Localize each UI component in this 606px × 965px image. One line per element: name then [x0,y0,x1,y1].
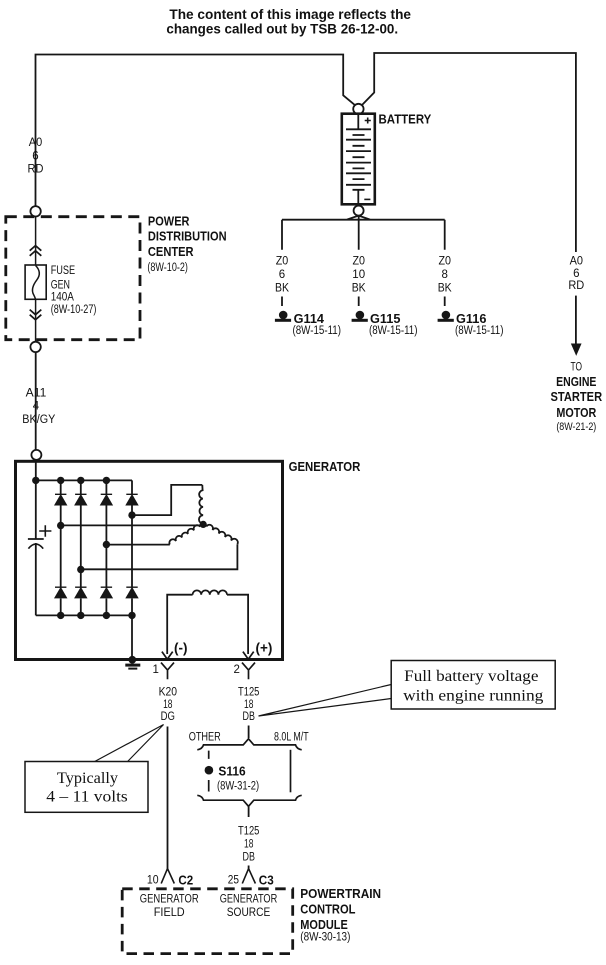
svg-text:(8W-15-11): (8W-15-11) [369,325,418,337]
node PDC input circle [30,206,40,216]
svg-text:A0: A0 [29,137,42,149]
wire top left bus from A0 to battery positive [36,55,356,207]
svg-text:RD: RD [28,164,44,176]
wire PDC internal top [35,217,37,266]
wire T125 to PCM [248,866,250,869]
node stator Y center [200,521,207,528]
svg-text:6: 6 [573,268,579,280]
label TO ENGINE STARTER MOTOR [551,362,603,434]
connector pin1 Y [161,663,174,680]
connector PCM pin25 [242,869,255,884]
svg-text:MODULE: MODULE [300,917,348,932]
connector PCM pin10 [161,869,174,884]
arrowhead field negative to pin1 [162,652,173,660]
diode D4 top col4 [126,494,137,505]
diode D8 bottom col4 [126,587,137,598]
label wire A11 4 BK/GY [22,388,55,427]
svg-text:GENERATOR: GENERATOR [220,894,278,906]
wire stator phase A step [132,485,202,515]
label FUSE GEN 140A (8W-10-27) [51,265,97,316]
svg-text:BATTERY: BATTERY [379,113,432,127]
title note TSB [166,7,411,37]
field winding loop [167,595,192,654]
svg-text:TO: TO [571,362,583,374]
ground generator case [125,656,140,670]
wire generator left vertical (B+ rail) [35,461,37,539]
label wire Z0 8 BK [438,256,452,295]
label wire Z0 6 BK [275,256,289,295]
svg-text:DG: DG [161,711,175,723]
svg-text:BK: BK [438,283,452,295]
svg-text:GENERATOR: GENERATOR [289,459,361,474]
capacitor C1 [28,525,52,548]
wire stator phase B to col3 [106,544,169,546]
chevrons up [30,246,42,256]
svg-text:Z0: Z0 [276,256,289,268]
ground G114 [275,311,291,322]
node phase tap col1 [57,522,64,529]
wire branch 8.0L M/T [290,750,292,793]
svg-text:CONTROL: CONTROL [300,902,355,917]
wire stub to G115 [358,297,360,307]
wire PDC internal bottom [35,299,37,341]
wire stator phase C to col2 [81,544,238,569]
svg-text:POWERTRAIN: POWERTRAIN [300,886,381,901]
node PDC output circle [30,342,40,352]
label wire T125 18 DB lower [238,826,259,864]
wire T125 stub below DB [248,726,250,739]
label POWERTRAIN CONTROL MODULE [300,886,381,944]
ground G115 [352,311,368,322]
svg-text:DB: DB [243,711,256,723]
rotor field coil [193,590,227,594]
svg-text:Full battery voltage: Full battery voltage [404,668,538,685]
label GENERATOR FIELD [140,894,199,920]
wire K20 down to PCM [167,727,169,869]
svg-text:8: 8 [441,269,447,281]
diode D1 top col1 [55,494,66,505]
label GENERATOR SOURCE [220,894,278,920]
callout pointer to DG wire [95,725,164,762]
svg-text:BK: BK [275,283,289,295]
svg-text:(-): (-) [174,641,188,656]
stator winding C coil [206,525,238,544]
wire battery negative to ground bus [282,216,445,250]
svg-text:Typically: Typically [57,770,118,787]
svg-text:25: 25 [228,875,239,887]
svg-text:6: 6 [279,269,285,281]
node phase tap col4 [128,511,135,518]
svg-text:Z0: Z0 [438,256,451,268]
svg-text:(8W-10-27): (8W-10-27) [51,304,97,316]
callout typically 4-11 volts box [25,762,148,813]
svg-text:CENTER: CENTER [148,244,194,259]
svg-text:18: 18 [163,699,172,711]
svg-text:1: 1 [153,664,159,676]
svg-text:BK/GY: BK/GY [22,414,55,426]
label wire K20 18 DG [159,687,177,724]
svg-text:(8W-31-2): (8W-31-2) [217,781,259,793]
label wire Z0 10 BK [352,256,366,295]
node battery negative terminal circle [354,206,364,216]
svg-text:4: 4 [33,401,40,413]
wire stub to G116 [444,297,446,307]
svg-text:6: 6 [32,151,38,163]
callout pointer to DB wire [259,685,392,717]
chevrons down [30,310,42,320]
svg-text:FIELD: FIELD [154,907,185,919]
ground G116 [438,311,454,322]
svg-text:MOTOR: MOTOR [556,405,596,420]
generator box [16,461,283,659]
svg-text:GENERATOR: GENERATOR [140,894,199,906]
svg-text:RD: RD [568,280,584,292]
diode D5 bottom col1 [55,587,66,598]
wire rectifier top rail [36,479,132,481]
label wire A0 6 RD right [568,256,584,293]
svg-text:GEN: GEN [51,280,70,292]
wire col4 to case ground [131,615,133,659]
label Full battery voltage with engine running [403,668,543,705]
wire stub to G114 [281,297,283,307]
connector pin2 Y [242,663,255,680]
svg-text:Z0: Z0 [352,256,365,268]
wire branch OTHER (dashed) [208,751,210,792]
wire rectifier bottom rail [36,614,132,616]
diode column 3 wire [105,480,107,615]
diode column 1 wire [60,480,62,615]
svg-text:140A: 140A [51,292,74,304]
power distribution center box (dashed) [6,217,140,340]
node battery positive terminal circle [353,104,363,114]
svg-text:ENGINE: ENGINE [556,374,597,389]
svg-text:18: 18 [244,839,253,851]
svg-text:10: 10 [147,875,159,887]
svg-text:(8W-30-13): (8W-30-13) [300,932,350,944]
diode D6 bottom col2 [75,587,86,598]
svg-text:A0: A0 [570,256,583,268]
svg-text:OTHER: OTHER [189,732,221,744]
svg-text:18: 18 [244,699,253,711]
svg-text:BK: BK [352,283,366,295]
diode D2 top col2 [75,494,86,505]
brace split top [197,739,301,750]
svg-text:STARTER: STARTER [551,389,603,404]
svg-text:C2: C2 [178,873,193,888]
svg-text:G114: G114 [294,311,325,326]
svg-text:(8W-15-11): (8W-15-11) [455,325,504,337]
junction dots bottom rail [57,612,136,619]
callout full battery voltage box [391,661,555,710]
junction dots top rail [32,477,110,484]
svg-text:10: 10 [352,269,365,281]
svg-text:A11: A11 [26,388,47,400]
splice S116 [205,766,214,775]
svg-text:T125: T125 [238,826,259,838]
svg-text:DB: DB [243,852,256,864]
label wire A0 6 RD left [28,137,44,176]
wire T125 below merge [248,806,250,817]
label wire T125 18 DB [238,687,259,724]
svg-text:4 – 11 volts: 4 – 11 volts [46,789,128,806]
svg-text:G115: G115 [370,311,400,326]
svg-text:8.0L M/T: 8.0L M/T [274,732,309,744]
battery B1 [342,114,375,205]
node phase tap col2 [77,566,84,573]
stator winding B coil [169,525,200,544]
svg-text:G116: G116 [456,311,486,326]
svg-text:with engine running: with engine running [403,688,543,705]
svg-text:changes called out by TSB 26-1: changes called out by TSB 26-12-00. [166,22,398,37]
wire top right bus from battery positive to starter feed [362,53,576,252]
svg-text:S116: S116 [218,764,245,779]
wire arrow to engine starter motor [575,296,577,345]
svg-text:(8W-21-2): (8W-21-2) [556,421,596,433]
svg-text:(+): (+) [256,641,273,656]
svg-text:2: 2 [234,664,240,676]
diode D3 top col3 [101,494,112,505]
svg-text:T125: T125 [238,687,259,699]
stator winding A coil [199,485,203,524]
svg-text:(8W-10-2): (8W-10-2) [147,262,188,274]
fuse GEN 140A [25,265,46,299]
svg-text:FUSE: FUSE [51,265,76,277]
powertrain control module box (dashed) [122,889,293,954]
node generator input circle [31,450,41,460]
diode D7 bottom col3 [101,587,112,598]
svg-text:DISTRIBUTION: DISTRIBUTION [148,229,227,244]
diode column 4 wire [131,480,133,615]
label Typically 4-11 volts [46,770,128,806]
arrowhead field positive to pin2 [243,652,254,660]
svg-text:C3: C3 [259,873,274,888]
node phase tap col3 [103,541,110,548]
brace merge bottom [197,795,301,806]
svg-text:POWER: POWER [148,214,190,229]
svg-text:The content of this image refl: The content of this image reflects the [169,7,411,22]
svg-text:K20: K20 [159,687,177,699]
diode column 2 wire [80,480,82,615]
wire stator phase A to col1 [61,524,201,526]
label POWER DISTRIBUTION CENTER [147,214,226,275]
wire A11 4 BK/GY [35,352,37,450]
svg-text:(8W-15-11): (8W-15-11) [293,325,342,337]
svg-text:SOURCE: SOURCE [227,907,271,919]
